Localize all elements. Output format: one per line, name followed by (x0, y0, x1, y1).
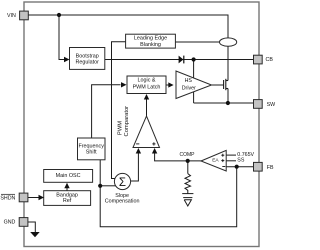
svg-text:Frequency: Frequency (78, 143, 104, 149)
svg-text:HS: HS (185, 78, 193, 84)
svg-text:SS: SS (237, 158, 245, 164)
svg-text:Blanking: Blanking (140, 42, 161, 48)
svg-text:Driver: Driver (182, 86, 196, 92)
svg-text:CB: CB (266, 57, 274, 63)
svg-text:PWM Latch: PWM Latch (133, 84, 161, 90)
svg-text:Compensation: Compensation (105, 199, 140, 205)
svg-text:Comparator: Comparator (124, 106, 130, 137)
svg-text:PWM: PWM (117, 121, 123, 135)
svg-text:SW: SW (267, 102, 276, 108)
svg-text:VIN: VIN (7, 13, 16, 19)
svg-text:SHDN: SHDN (0, 196, 15, 202)
svg-text:GND: GND (4, 219, 16, 225)
svg-text:Shift: Shift (86, 150, 97, 156)
svg-text:Ref: Ref (63, 198, 72, 204)
svg-text:COMP: COMP (180, 152, 196, 158)
svg-text:Σ: Σ (119, 177, 126, 189)
svg-text:Regulator: Regulator (76, 60, 100, 66)
svg-text:Bootstrap: Bootstrap (76, 53, 99, 59)
svg-text:EA: EA (212, 158, 219, 164)
svg-text:Main OSC: Main OSC (56, 173, 81, 179)
svg-text:Leading Edge: Leading Edge (134, 36, 167, 42)
svg-text:Logic &: Logic & (138, 78, 156, 84)
svg-text:FB: FB (267, 165, 274, 171)
